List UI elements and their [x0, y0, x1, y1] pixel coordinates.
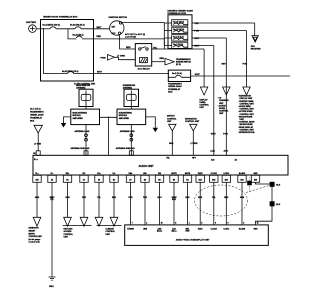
svg-text:LR-: LR- [113, 173, 116, 175]
svg-text:BATTERY: BATTERY [26, 21, 36, 24]
svg-text:B3: B3 [113, 180, 115, 182]
svg-text:SUNROOF/: SUNROOF/ [29, 228, 39, 230]
svg-text:NAVIGATION: NAVIGATION [185, 117, 197, 120]
svg-text:UNIT: UNIT [219, 113, 224, 115]
svg-text:ANTENNA LEAD: ANTENNA LEAD [120, 130, 135, 133]
svg-text:No.22 (BAT) (100 A): No.22 (BAT) (100 A) [43, 24, 61, 27]
svg-text:A6: A6 [98, 179, 100, 182]
svg-text:RF+: RF+ [66, 173, 69, 175]
svg-text:(P, N): (P, N) [176, 64, 181, 66]
svg-text:• ACTIVE NOISE: • ACTIVE NOISE [238, 110, 253, 113]
svg-text:BLK: BLK [276, 184, 281, 186]
svg-text:ACC: ACC [224, 149, 229, 152]
svg-text:ANTENNA SUBLEAD: ANTENNA SUBLEAD [71, 147, 90, 150]
svg-text:(in the gauge: (in the gauge [29, 238, 41, 241]
svg-text:LT GRN: LT GRN [34, 144, 42, 146]
svg-text:MUTE: MUTE [171, 173, 177, 175]
svg-text:(+B): (+B) [211, 150, 216, 152]
svg-text:AMPLIFIER: AMPLIFIER [119, 117, 130, 120]
svg-text:UNIT: UNIT [64, 237, 69, 239]
svg-text:AUDIO–HVAC SUBDISPLAY UNIT: AUDIO–HVAC SUBDISPLAY UNIT [176, 239, 210, 242]
svg-text:CLOCK: CLOCK [211, 228, 218, 230]
svg-text:PUR: PUR [243, 64, 248, 66]
svg-text:(BL/-): (BL/-) [172, 231, 177, 233]
svg-text:ANTENNA SUBLEAD: ANTENNA SUBLEAD [116, 147, 135, 150]
svg-text:DISPLAY UNIT: DISPLAY UNIT [240, 97, 254, 100]
svg-text:WHT: WHT [222, 64, 228, 66]
svg-text:B4: B4 [186, 179, 188, 182]
svg-text:BLANK: BLANK [239, 227, 246, 230]
svg-text:• ACTIVE: • ACTIVE [218, 104, 227, 107]
svg-text:B15: B15 [212, 180, 215, 182]
svg-text:WHT: WHT [194, 38, 200, 40]
svg-text:WHT: WHT [195, 74, 201, 76]
svg-text:RANGE SWITCH: RANGE SWITCH [176, 61, 191, 64]
svg-text:8: 8 [175, 223, 176, 225]
svg-text:TRANSMISSION: TRANSMISSION [176, 58, 191, 61]
svg-text:YEL: YEL [212, 197, 217, 199]
svg-text:UNDER–HOOD FUSE/RELAY BOX: UNDER–HOOD FUSE/RELAY BOX [43, 15, 78, 18]
svg-text:PUR: PUR [194, 31, 199, 33]
svg-text:B13: B13 [240, 180, 243, 182]
svg-text:B16: B16 [225, 180, 228, 182]
svg-text:WHT: WHT [194, 46, 200, 48]
svg-text:GND: GND [254, 173, 259, 175]
svg-text:RECEIVER: RECEIVER [251, 48, 261, 50]
svg-text:CLOCK: CLOCK [211, 173, 218, 175]
svg-text:SWITCH: SWITCH [167, 116, 175, 118]
svg-text:FUSE/RELAY: FUSE/RELAY [168, 88, 181, 91]
svg-text:(BL/+): (BL/+) [157, 231, 163, 233]
svg-text:PASSENGER'S: PASSENGER'S [30, 110, 44, 113]
svg-text:SUBANTENNA: SUBANTENNA [119, 111, 133, 114]
svg-text:CONTROL: CONTROL [64, 234, 74, 236]
svg-text:and ON (II): and ON (II) [125, 37, 136, 39]
svg-text:UNIT: UNIT [167, 121, 172, 123]
svg-text:3: 3 [243, 223, 244, 225]
svg-text:RXD: RXD [186, 231, 190, 233]
svg-text:CONTROL UNIT: CONTROL UNIT [185, 121, 200, 123]
svg-text:RF-: RF- [83, 173, 86, 175]
svg-text:No.2 (10 A): No.2 (10 A) [172, 72, 182, 75]
svg-text:CONTROLLER: CONTROLLER [29, 236, 43, 238]
svg-text:BOX: BOX [168, 91, 173, 93]
svg-text:control unit): control unit) [29, 241, 40, 244]
svg-text:GND: GND [254, 228, 259, 230]
svg-text:B7: B7 [129, 180, 131, 182]
svg-text:B10: B10 [254, 180, 257, 182]
svg-text:PGM: PGM [101, 57, 106, 59]
svg-text:AMPLIFIER: AMPLIFIER [73, 117, 84, 120]
svg-text:PANEL: PANEL [200, 101, 207, 104]
svg-text:MAIN ANTENNA: MAIN ANTENNA [73, 111, 88, 114]
svg-text:YEL: YEL [50, 199, 55, 201]
svg-text:MODULE: MODULE [73, 115, 82, 117]
svg-text:YEL: YEL [153, 47, 158, 49]
svg-text:ANTENNA LEAD: ANTENNA LEAD [75, 130, 90, 133]
svg-text:RED: RED [126, 47, 131, 49]
svg-text:RED: RED [97, 36, 102, 38]
svg-text:• INTERFACE DIAL: • INTERFACE DIAL [238, 131, 256, 134]
svg-text:BLANK: BLANK [239, 172, 246, 175]
svg-text:ACC: ACC [112, 32, 117, 35]
svg-text:RED: RED [160, 58, 165, 60]
svg-text:10: 10 [161, 223, 163, 225]
svg-text:9: 9 [215, 223, 216, 225]
svg-text:BLK: BLK [276, 204, 281, 206]
svg-text:• REAR DISPLAY: • REAR DISPLAY [238, 126, 254, 129]
svg-text:DISPLAY: DISPLAY [200, 98, 209, 101]
svg-text:B6: B6 [173, 180, 175, 182]
svg-text:A15: A15 [35, 179, 38, 182]
svg-text:UNIT: UNIT [200, 107, 205, 109]
svg-text:BOX: BOX [30, 120, 35, 122]
svg-text:A2: A2 [235, 159, 237, 162]
svg-text:7: 7 [132, 223, 133, 225]
svg-text:ACC HOT in ACC (I): ACC HOT in ACC (I) [125, 33, 145, 36]
svg-text:PASSENGER'S: PASSENGER'S [168, 83, 182, 86]
svg-text:CONTROL: CONTROL [106, 231, 116, 233]
svg-text:LINE: LINE [143, 228, 148, 230]
svg-text:• CONTROL REAR: • CONTROL REAR [238, 121, 255, 124]
svg-text:SMART: SMART [29, 230, 37, 233]
svg-text:ACCESS: ACCESS [64, 230, 73, 233]
svg-text:WHT: WHT [211, 133, 217, 135]
svg-text:DATA: DATA [198, 227, 203, 230]
svg-text:CONTROL: CONTROL [167, 118, 177, 120]
svg-text:6: 6 [228, 223, 229, 225]
svg-text:• NAVIGATION: • NAVIGATION [238, 95, 251, 98]
svg-text:UNDER–DASH: UNDER–DASH [168, 85, 182, 88]
svg-text:LOGIC: LOGIC [223, 228, 229, 230]
svg-text:KEYLESS: KEYLESS [64, 228, 74, 230]
svg-text:WHT: WHT [97, 27, 103, 29]
svg-text:CHANGER: CHANGER [219, 99, 229, 102]
svg-text:SW-: SW- [143, 173, 147, 175]
svg-text:AUDIO UNIT: AUDIO UNIT [139, 164, 155, 168]
svg-text:A7: A7 [83, 179, 85, 182]
svg-text:FUSE/RELAY: FUSE/RELAY [30, 116, 43, 119]
svg-text:MUTE: MUTE [185, 173, 191, 175]
svg-text:No.7 (7.5 A): No.7 (7.5 A) [30, 107, 41, 110]
svg-text:YEL: YEL [194, 23, 199, 25]
svg-text:B2: B2 [144, 180, 146, 182]
svg-text:IGNITION SWITCH: IGNITION SWITCH [109, 17, 128, 19]
svg-text:5: 5 [201, 223, 202, 225]
svg-text:WHT: WHT [198, 197, 203, 199]
svg-text:G2: G2 [33, 153, 36, 155]
svg-text:TX/GND: TX/GND [127, 228, 134, 230]
svg-text:B1: B1 [66, 180, 68, 182]
svg-text:A5: A5 [51, 179, 53, 182]
svg-text:ILL+: ILL+ [34, 159, 39, 161]
svg-text:HFT: HFT [192, 158, 197, 160]
svg-text:LT GRN: LT GRN [191, 143, 199, 145]
svg-text:UNIT: UNIT [106, 234, 111, 236]
svg-text:MODULE: MODULE [119, 115, 128, 117]
svg-text:FL-: FL- [51, 173, 54, 175]
svg-text:YEL: YEL [97, 197, 102, 199]
svg-text:GRN: GRN [169, 143, 174, 145]
svg-text:FL+: FL+ [35, 173, 38, 175]
svg-text:LOGIC: LOGIC [223, 173, 229, 175]
svg-text:ACC RELAY: ACC RELAY [138, 67, 151, 70]
svg-text:CLIMATE: CLIMATE [106, 227, 115, 230]
svg-text:UNDER–DASH: UNDER–DASH [30, 113, 44, 116]
svg-text:B8: B8 [158, 180, 160, 182]
svg-text:A16: A16 [211, 159, 214, 162]
svg-text:• CENTER PANEL: • CENTER PANEL [238, 100, 255, 103]
svg-text:G501: G501 [49, 286, 54, 288]
svg-text:WHT: WHT [97, 72, 103, 74]
svg-text:1: 1 [189, 223, 190, 225]
svg-text:• AUDIO WIRE: • AUDIO WIRE [238, 105, 251, 108]
svg-text:BAT: BAT [112, 25, 116, 28]
svg-text:LT GRN: LT GRN [117, 55, 125, 57]
svg-text:No.23 (IG) (50 A): No.23 (IG) (50 A) [70, 24, 85, 27]
svg-text:PUR: PUR [223, 133, 228, 135]
svg-text:LR+: LR+ [97, 173, 100, 175]
svg-text:2: 2 [146, 223, 147, 225]
svg-text:DATA: DATA [198, 172, 203, 175]
svg-text:11: 11 [257, 223, 259, 225]
svg-text:SW+: SW+ [129, 173, 133, 175]
svg-text:B14: B14 [199, 179, 202, 182]
svg-text:TEL: TEL [166, 158, 170, 160]
svg-text:ENTRY: ENTRY [29, 233, 36, 235]
